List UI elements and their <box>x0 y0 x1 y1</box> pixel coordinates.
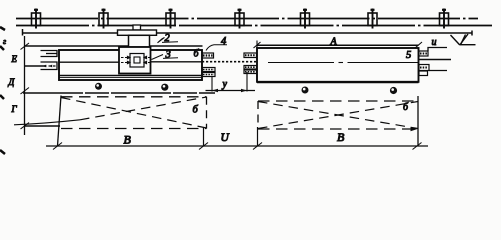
label 2 underline <box>162 41 178 44</box>
bottom extension line left-mid <box>203 127 205 146</box>
foundation rect 2 diagonal TL-BR <box>258 102 418 129</box>
exciter box <box>119 47 151 74</box>
hanger 6 <box>368 9 377 29</box>
left dimension staff <box>24 36 26 135</box>
foundation rect 2 top dashed <box>258 100 418 102</box>
svg-text:В: В <box>337 130 345 144</box>
foundation rect 2 left dashed <box>257 101 259 129</box>
coupling stub lower right <box>244 66 257 74</box>
foundation rect 1 diagonal BL-TR with curve tail <box>14 120 80 125</box>
label 3 underline <box>163 57 178 60</box>
foundation rect 1 diagonal TL-BR <box>61 98 207 129</box>
short tick line y66 <box>25 65 46 67</box>
dimension A tick right <box>415 42 422 48</box>
machine 2 centerline <box>268 62 419 64</box>
label 2 leader arrow <box>158 38 165 43</box>
edge smudge 3 <box>0 95 4 99</box>
exciter core <box>134 57 140 63</box>
svg-text:В: В <box>124 133 132 147</box>
right rod line <box>419 59 452 61</box>
foundation rect 1 bottom dashed <box>61 128 207 130</box>
svg-text:5: 5 <box>406 50 411 61</box>
coupling stub upper left <box>202 53 214 58</box>
exciter arrows right <box>144 56 151 63</box>
exciter inner frame <box>130 54 144 68</box>
dimension A tick left <box>254 42 261 48</box>
staff tick y125.5 <box>21 123 30 130</box>
roller 4 <box>390 87 397 94</box>
foundation rect 1 right dashed <box>206 97 208 129</box>
machine 2 body <box>257 48 419 82</box>
svg-text:б: б <box>193 105 199 116</box>
svg-text:и: и <box>432 37 437 48</box>
exciter arrows left <box>121 56 130 63</box>
staff tick y46 <box>21 43 30 50</box>
short line y126 <box>25 125 61 127</box>
bottom dimension line <box>46 145 428 147</box>
label 4 leader <box>206 45 227 51</box>
foundation rect 2 bottom dashed <box>258 128 418 130</box>
dimension A line <box>257 44 419 46</box>
dimension u line <box>206 90 256 92</box>
right step line <box>428 48 447 52</box>
dimension u extension left <box>211 76 213 92</box>
rail line 2 (dash-dot) <box>16 25 492 27</box>
dimension A extension at left corner <box>256 41 258 49</box>
extension line y46 (to machine 1) <box>25 45 203 47</box>
svg-text:б: б <box>403 102 409 113</box>
svg-text:А: А <box>330 37 338 48</box>
svg-text:Е: Е <box>11 54 18 64</box>
rect 2 bottom edge arrowhead <box>411 127 418 131</box>
svg-text:Д: Д <box>8 77 16 87</box>
hanger 2 <box>99 9 108 29</box>
bottom tick 4 <box>413 143 422 150</box>
coupling stub lower left <box>202 68 215 77</box>
foundation rect 2 diagonal BL-TR <box>258 102 418 129</box>
right lower line <box>429 70 447 72</box>
roller 3 <box>302 87 309 94</box>
foundation rect 1 left solid edge <box>58 96 62 147</box>
roller 2 <box>161 84 168 91</box>
svg-text:Г: Г <box>11 104 18 114</box>
hanger 7 <box>440 9 449 29</box>
hanger 4 <box>235 9 244 29</box>
hanger 1 <box>32 9 41 29</box>
suspension plate <box>118 30 157 35</box>
rail line 1 (dash-dot monorail) <box>16 18 478 20</box>
foundation rect 2 right solid edge <box>417 96 419 146</box>
leaf spring upper <box>41 51 58 57</box>
hanger 3 <box>166 9 175 29</box>
coupling rod dashes in gap <box>202 61 256 63</box>
roller 1 <box>95 83 102 90</box>
machine 1 mid line left <box>59 61 119 63</box>
coupling stub upper right <box>244 53 257 58</box>
right stub upper <box>419 51 428 56</box>
svg-text:4: 4 <box>221 36 227 47</box>
machine 1 body <box>59 50 202 80</box>
suspension stem <box>133 25 141 30</box>
bottom tick 2 <box>199 143 208 150</box>
staff tick y91 <box>21 88 30 95</box>
bottom extension line right-mid <box>257 127 259 146</box>
datum line y93 <box>23 92 215 94</box>
hanger 5 <box>301 9 310 29</box>
bottom tick 1 <box>53 143 62 150</box>
edge smudge 1 <box>0 27 5 30</box>
leaf spring lower <box>41 62 58 70</box>
vibrator block <box>129 35 150 47</box>
dimension u extension right <box>246 72 248 92</box>
edge smudge 4 <box>0 150 5 154</box>
foundation rect 1 top dashed <box>61 96 207 98</box>
dimension u arrowheads <box>212 89 247 93</box>
svg-text:у: у <box>222 79 228 90</box>
overall length line with end bars <box>23 29 473 36</box>
bottom tick 3 <box>253 143 262 150</box>
svg-text:г: г <box>3 37 6 46</box>
machine 1 mid line right <box>151 61 203 63</box>
svg-text:3: 3 <box>165 50 171 61</box>
machine 1 inner floor line <box>59 74 202 76</box>
right stub lower <box>419 65 429 76</box>
svg-text:U: U <box>221 132 230 144</box>
edge smudge 2 <box>0 46 4 50</box>
label 3 leader <box>152 55 164 60</box>
machine 2 bottom double <box>257 81 419 83</box>
machine 1 inner bottom line <box>59 76 202 78</box>
mark check-1 <box>451 34 476 45</box>
